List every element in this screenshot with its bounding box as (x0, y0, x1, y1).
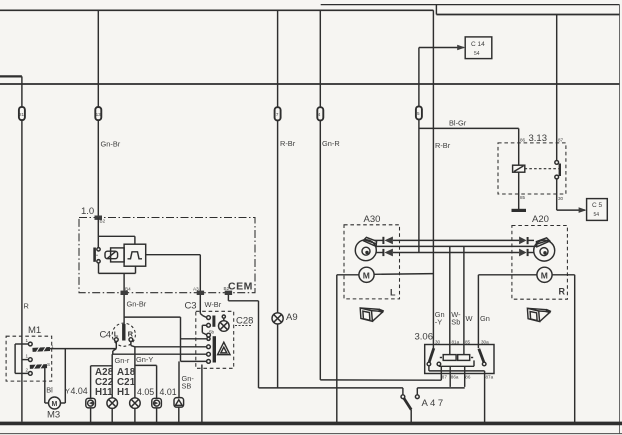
svg-text:86: 86 (465, 375, 471, 380)
CEM pulse generator box (124, 244, 146, 266)
wire A47 to 86a 86 (417, 387, 464, 389)
lamp A30 bulb (355, 237, 376, 260)
svg-text:30: 30 (558, 196, 564, 201)
wire A20 M left to 30a (478, 275, 537, 348)
svg-text:5: 5 (417, 111, 420, 116)
connector box C14 (465, 37, 492, 59)
svg-text:3.13: 3.13 (529, 133, 548, 144)
svg-text:A9: A9 (286, 312, 298, 323)
3.06 terminal 86a exit (449, 367, 451, 387)
svg-text:S: S (47, 362, 50, 367)
hazard switch 3.06 box (425, 345, 494, 374)
svg-text:CEM: CEM (228, 281, 253, 293)
svg-text:L: L (114, 330, 119, 339)
relay 3.13 dashed box (498, 143, 566, 194)
lamp A28 C22 H11 (107, 398, 118, 424)
fuse F21 (19, 107, 25, 120)
wire 4.04 riser (91, 366, 113, 424)
M1 pin 1 (15, 342, 32, 346)
svg-text:A 4 7: A 4 7 (422, 398, 444, 409)
wire C28 ground (201, 365, 203, 424)
3.06 terminal 81a stub (450, 354, 452, 356)
svg-text:1: 1 (51, 344, 54, 349)
connector box C14 text (471, 41, 485, 57)
3.06 lamp resistor right (458, 355, 470, 361)
turn signal switch C4 lever (122, 324, 125, 341)
svg-text:85: 85 (520, 195, 526, 200)
wire L contact down (113, 342, 117, 355)
wire Gn-Br branch to hazard contacts (124, 317, 206, 361)
3.06 contact blade right (479, 349, 486, 366)
fuse F5 (416, 106, 422, 119)
svg-text:81a: 81a (452, 340, 460, 345)
wire A30 M left to ground (337, 275, 359, 424)
svg-text:4.01: 4.01 (160, 387, 177, 397)
svg-text:C 4: C 4 (100, 330, 112, 341)
svg-text:Gn-R: Gn-R (322, 139, 340, 148)
wire R contact down (131, 342, 135, 347)
bus 15 top right segment (436, 5, 619, 15)
diode A30 upper (383, 237, 393, 245)
repeater wedge left (360, 308, 383, 321)
C3 pin 5 (207, 345, 211, 349)
wire 4.01 down (178, 407, 180, 423)
CEM terminal B2 top blob (95, 216, 103, 220)
3.06 internal link lower (429, 366, 485, 371)
svg-text:54: 54 (594, 212, 600, 218)
svg-text:C 14: C 14 (471, 41, 485, 48)
wire A30 M right to 30 line (374, 273, 433, 276)
svg-text:4.04: 4.04 (71, 386, 88, 396)
svg-text:R: R (128, 330, 134, 339)
C3 pin 7 (207, 360, 211, 364)
svg-text:85: 85 (465, 340, 471, 345)
wire Gn-r net to C3 (112, 354, 206, 398)
CEM terminal B2 bottom blob (225, 291, 232, 295)
svg-text:7: 7 (276, 112, 279, 117)
svg-text:Bl-Gr: Bl-Gr (449, 119, 467, 128)
wire Bl M1 to M3 (45, 368, 49, 403)
svg-text:Gn-Br: Gn-Br (101, 140, 121, 149)
wire W middle rail to 85 (463, 246, 465, 354)
wire R supply left (21, 76, 23, 421)
ground symbol relay 3.13 (512, 209, 527, 212)
wire to CEM B2 (97, 10, 99, 217)
diode A20 upper (519, 237, 528, 245)
svg-text:21: 21 (19, 112, 25, 117)
svg-text:R: R (24, 302, 29, 311)
CEM switch return wire to B4 (99, 263, 136, 293)
svg-text:H1: H1 (117, 387, 130, 398)
CEM terminal A3 blob (197, 291, 204, 295)
svg-text:Sb: Sb (451, 318, 460, 327)
svg-text:1: 1 (26, 338, 29, 343)
C28 tell-tale lamp (219, 315, 230, 331)
svg-text:30a: 30a (481, 340, 489, 345)
svg-text:A20: A20 (532, 214, 549, 225)
svg-text:54: 54 (474, 51, 480, 57)
svg-text:B2: B2 (100, 219, 106, 224)
svg-text:1.0: 1.0 (81, 206, 94, 217)
svg-text:R: R (559, 287, 566, 297)
svg-text:C28: C28 (236, 316, 253, 327)
diode A30 lower (383, 249, 393, 257)
svg-text:C 3: C 3 (185, 301, 197, 312)
svg-text:C 5: C 5 (592, 202, 603, 209)
wire Gn-R (320, 10, 441, 380)
connector box C5 text (592, 202, 603, 218)
CEM internal feed wire (98, 218, 135, 248)
wire W-Br CEM A3 to C3 (200, 295, 206, 318)
connector box C5 (587, 199, 608, 221)
C28 underline dashed (235, 325, 252, 327)
svg-text:A30: A30 (364, 214, 381, 225)
fuse F7 (275, 107, 281, 120)
wire Gn-SB to 4.01 (178, 361, 180, 397)
C28 contact bar lower (213, 336, 216, 362)
svg-text:A3: A3 (193, 287, 199, 292)
wire M1 to L contact (50, 348, 116, 350)
C4 contact R (129, 338, 133, 342)
svg-text:R-Br: R-Br (280, 139, 296, 148)
wire CEM B2 to A47 (228, 295, 403, 388)
wire 4.05 riser (135, 365, 157, 423)
svg-text:2: 2 (26, 368, 29, 373)
svg-text:Gn-r: Gn-r (115, 356, 130, 365)
diode A20 lower (519, 249, 528, 257)
CEM terminal B4 blob (121, 291, 128, 295)
svg-text:3.06: 3.06 (415, 332, 434, 343)
relay 3.13 switch (555, 161, 560, 179)
C3 pin 2 (202, 323, 210, 334)
CEM relay switch (95, 248, 101, 263)
wire top bus to relay 3.13 contact 87 (556, 15, 558, 161)
wire Gn-Y net to C3 (135, 347, 207, 398)
lamp A9 (272, 313, 283, 324)
svg-text:B2: B2 (224, 286, 230, 291)
svg-text:M: M (541, 270, 548, 280)
svg-text:86: 86 (520, 138, 526, 143)
3.06 tick marks (440, 357, 473, 359)
svg-text:W-Br: W-Br (205, 300, 222, 309)
svg-text:M: M (52, 401, 58, 408)
fuse F4 (317, 107, 323, 120)
svg-text:4: 4 (318, 112, 321, 117)
C3 pin 1 (207, 316, 211, 320)
svg-text:M3: M3 (47, 410, 60, 421)
repeater wedge right (527, 308, 550, 321)
svg-text:SB: SB (182, 382, 192, 391)
connector C3 / hazard unit C28 dashed box (196, 311, 234, 368)
wire fuse F5 to C14 arrow (419, 48, 464, 107)
bus X second rail (0, 83, 620, 85)
wire R-Br right from bus to 3.06 terminal 30 (432, 10, 434, 348)
motor M3 (49, 397, 61, 409)
wire A20 M right to ground (552, 275, 575, 423)
CEM pulse output wire to A3 (146, 255, 201, 293)
svg-text:87a: 87a (486, 375, 494, 380)
relay 3.13 coil (513, 165, 525, 172)
indicator 4.05 (152, 398, 162, 408)
svg-text:13: 13 (96, 112, 102, 117)
unit A20 dashed box (512, 226, 568, 300)
wire Y to M3 motor (61, 349, 66, 403)
fuse F13 (95, 107, 101, 120)
CEM relay coil box (105, 248, 124, 262)
wire lower diode rail (376, 252, 519, 254)
M1 pin mid (22, 358, 32, 362)
wire A20 diodes to bulb (528, 240, 534, 252)
svg-text:Gn-Br: Gn-Br (127, 300, 147, 309)
svg-text:Bl: Bl (46, 386, 53, 395)
CEM module dash-dot box (79, 218, 255, 293)
svg-text:5b: 5b (209, 330, 215, 335)
svg-text:B4: B4 (125, 287, 131, 292)
svg-text:87: 87 (558, 138, 564, 143)
svg-text:Gn-Y: Gn-Y (136, 355, 153, 364)
wire middle rail flag to flag (376, 245, 537, 247)
wire W-Sb middle rail to 81a (449, 246, 451, 354)
svg-text:1: 1 (26, 354, 29, 359)
C3 pin 4 (207, 337, 210, 340)
svg-text:87: 87 (442, 375, 448, 380)
wire below F5 to diode rail (418, 120, 420, 253)
svg-text:Gn: Gn (480, 314, 490, 323)
relay 3.13 coil to ground (518, 172, 520, 210)
indicator 4.01 (174, 398, 184, 408)
C4 contact L (114, 338, 118, 342)
lamp A18 C21 H1 (130, 398, 141, 424)
wire upper diode rail (375, 239, 520, 241)
bus 15 top left segment (0, 9, 433, 11)
bus 30 short feed top-left (0, 75, 22, 77)
turn signal switch C4 dashed circle (112, 323, 135, 346)
svg-text:L: L (390, 288, 396, 298)
ignition switch M1 dashed box (6, 336, 52, 381)
motor A30 M (359, 267, 374, 282)
arrowhead C5 (579, 207, 587, 213)
unit A30 dashed box (344, 225, 400, 299)
motor A20 M (537, 267, 552, 282)
wire Bl-Gr to relay coil (419, 128, 519, 165)
3.06 internal link upper (439, 360, 474, 366)
M1 contact bar upper (33, 347, 51, 352)
svg-text:4.05: 4.05 (137, 387, 154, 397)
3.06 terminal 87 exit to Gn-R (440, 366, 442, 380)
ground bus bottom (0, 422, 622, 426)
indicator 4.04 (86, 398, 96, 408)
3.06 terminal 87a exit to ground (484, 371, 486, 423)
svg-text:R-Br: R-Br (435, 141, 451, 150)
3.06 terminal 86 exit (464, 366, 466, 387)
relay 3.13 actuate dashed link (525, 168, 559, 170)
switch A47 (401, 388, 419, 424)
3.06 lamp resistor left (443, 355, 456, 361)
svg-text:86a: 86a (451, 375, 459, 380)
M1 contact bar lower (30, 364, 47, 369)
C3 pin 3 (207, 333, 211, 337)
M1 pin 2 (15, 372, 32, 376)
wire R-Br to A9 (277, 10, 279, 388)
tiny terminal labels (19, 111, 564, 379)
svg-text:Y: Y (65, 387, 70, 396)
svg-text:30: 30 (435, 340, 441, 345)
lamp A20 bulb (534, 238, 555, 261)
wire 3.13 switch to C5 arrow (557, 179, 585, 210)
arrowhead C14 (457, 45, 465, 51)
svg-text:-Y: -Y (435, 318, 442, 327)
M1 bracket (14, 344, 16, 373)
C28 contact bar upper (212, 316, 215, 327)
svg-text:H11: H11 (95, 387, 113, 398)
C28 warning triangle (218, 342, 230, 354)
svg-text:M: M (363, 270, 370, 280)
wire Gn-Br flasher output (123, 295, 125, 325)
C3 pin 6 (207, 352, 211, 356)
3.06 contact blade left (427, 348, 441, 366)
svg-text:W: W (466, 314, 473, 323)
svg-text:M1: M1 (28, 325, 41, 336)
